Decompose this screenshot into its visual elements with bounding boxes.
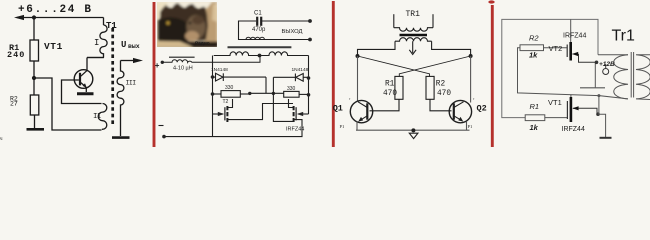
svg-text:P1: P1 xyxy=(340,124,345,129)
svg-text:R2: R2 xyxy=(529,34,539,43)
svg-text:1k: 1k xyxy=(530,123,539,132)
svg-text:+12В: +12В xyxy=(599,61,615,68)
svg-text:II: II xyxy=(93,113,101,121)
svg-text:Tr1: Tr1 xyxy=(612,28,636,45)
svg-text:VT1: VT1 xyxy=(548,98,562,107)
svg-text:T1: T1 xyxy=(106,21,117,31)
svg-text:1k: 1k xyxy=(529,51,538,60)
svg-text:IRFZ44: IRFZ44 xyxy=(286,127,304,133)
svg-text:Радио: Радио xyxy=(195,41,210,47)
svg-text:P1: P1 xyxy=(468,124,473,129)
svg-text:IRFZ44: IRFZ44 xyxy=(563,33,586,40)
svg-text:470: 470 xyxy=(437,90,451,98)
svg-text:470р: 470р xyxy=(252,27,266,33)
svg-text:TR1: TR1 xyxy=(406,10,421,19)
svg-text:ВЫХОД: ВЫХОД xyxy=(282,29,303,35)
svg-text:4-10 µН: 4-10 µН xyxy=(173,66,193,72)
svg-text:Q1: Q1 xyxy=(333,104,343,114)
svg-text:VT1: VT1 xyxy=(44,41,63,52)
svg-text:R1: R1 xyxy=(385,81,395,89)
svg-text:C1: C1 xyxy=(254,11,262,17)
svg-text:R1: R1 xyxy=(530,102,540,111)
svg-text:1N4148: 1N4148 xyxy=(211,67,228,73)
svg-text:IRFZ44: IRFZ44 xyxy=(562,126,585,133)
svg-text:470: 470 xyxy=(383,90,397,98)
svg-text:Q2: Q2 xyxy=(477,104,487,114)
svg-text:U: U xyxy=(121,40,126,50)
svg-text:VT2: VT2 xyxy=(549,44,563,53)
svg-text:240: 240 xyxy=(7,50,25,60)
svg-text:+6...24 В: +6...24 В xyxy=(18,4,93,16)
svg-text:330: 330 xyxy=(225,85,234,91)
svg-text:Т2: Т2 xyxy=(223,99,229,105)
svg-text:R2: R2 xyxy=(436,81,446,89)
svg-text:27: 27 xyxy=(10,101,18,108)
svg-text:вых: вых xyxy=(128,43,140,50)
svg-text:330: 330 xyxy=(287,86,296,92)
svg-text:+: + xyxy=(155,61,160,70)
svg-text:III: III xyxy=(126,80,137,87)
svg-text:I: I xyxy=(94,38,99,48)
svg-text:1N4148: 1N4148 xyxy=(292,67,309,73)
